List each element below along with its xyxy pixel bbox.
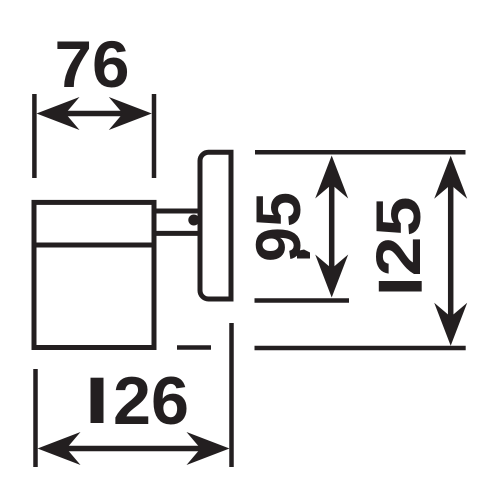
- wall plate: [200, 152, 231, 299]
- svg-text:26: 26: [113, 363, 189, 439]
- extension line right of 126 dim: [229, 323, 234, 467]
- top reference line (plate top level): [255, 150, 466, 155]
- dimension arrow 126: [38, 432, 230, 465]
- dimension arrow 95: [315, 156, 348, 298]
- tail of digit 9 (rotated): [297, 250, 310, 259]
- dimension arrow 125: [434, 156, 467, 346]
- dimension arrow 76: [37, 97, 152, 130]
- mounting arm bottom line: [154, 231, 200, 236]
- mounting arm top line: [154, 209, 200, 214]
- body divider line: [34, 243, 154, 248]
- short bottom level segment beside body: [177, 345, 211, 350]
- dimension label 126 digit 1: [91, 378, 104, 423]
- arm screw dot: [188, 215, 199, 226]
- bottom reference line (fixture bottom level, 125 dim): [255, 346, 466, 351]
- extension line left of 126 dim: [33, 369, 38, 467]
- extension line left of 76 dim: [32, 94, 37, 178]
- fixture body: [34, 202, 154, 347]
- svg-text:25: 25: [364, 197, 434, 277]
- svg-text:76: 76: [55, 27, 130, 101]
- dimension label 125 digit 1 (rotated bar): [379, 281, 422, 292]
- middle reference line (plate bottom level, 95 dim): [255, 298, 350, 303]
- extension line right of 76 dim: [152, 94, 157, 178]
